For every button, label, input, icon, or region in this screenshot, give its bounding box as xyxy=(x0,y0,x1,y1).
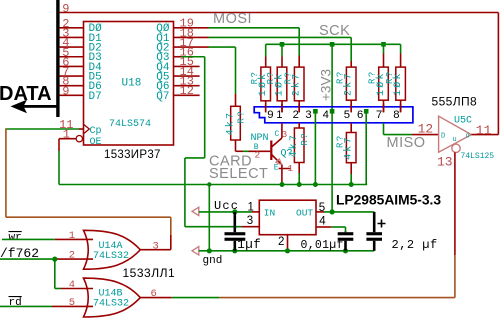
svg-text:6: 6 xyxy=(357,109,363,121)
connector pin label 1 xyxy=(276,109,282,121)
regulator pin 5 label xyxy=(319,202,325,214)
net Q2 to NPN base resistor xyxy=(209,47,236,106)
svg-text:R?: R? xyxy=(283,71,293,85)
connector pin label 9 xyxy=(267,109,273,121)
bus arrow (left-pointing) xyxy=(11,100,58,114)
svg-text:3: 3 xyxy=(247,215,253,227)
junction gnd at rail drop xyxy=(207,248,212,253)
connector pin label 7 xyxy=(376,109,382,121)
regulator pin 2 label xyxy=(278,236,284,248)
svg-text:rd: rd xyxy=(9,297,22,309)
transistor pin name B and number 2 xyxy=(254,143,261,161)
buffer input pin 12 label xyxy=(418,122,434,137)
U18 OE pin name xyxy=(90,137,102,148)
svg-text:1533ЛЛ1: 1533ЛЛ1 xyxy=(123,266,176,280)
net label /f762 xyxy=(0,246,39,261)
svg-text:1µf: 1µf xyxy=(237,238,261,252)
junction /f762 node xyxy=(52,257,57,262)
connector pin 1 pad stub xyxy=(281,104,283,112)
capacitor C? 0,01uf xyxy=(338,232,354,251)
svg-text:2,2 µf: 2,2 µf xyxy=(392,238,438,252)
buffer U5C 74LS125 triangle xyxy=(439,116,472,152)
wire Ucc to regulator IN pin 1 xyxy=(199,211,259,213)
svg-text:1: 1 xyxy=(63,128,70,142)
U18 output pin 12 stub (n.c.) xyxy=(174,84,200,98)
svg-text:9: 9 xyxy=(267,109,273,121)
svg-text:12: 12 xyxy=(418,122,434,137)
label 74LS32 (U14A) xyxy=(93,251,129,262)
U18 output pin name Q5 xyxy=(156,71,169,83)
resistor R? 10k (card pin 8 pull-up) xyxy=(385,44,406,112)
svg-text:3: 3 xyxy=(153,240,159,252)
junction divider R bottom (pin5) at rail xyxy=(349,182,354,187)
U18 pin name D5 xyxy=(89,71,102,83)
wire /f762 branch to U14B pin 4 xyxy=(55,259,93,291)
svg-text:SCK: SCK xyxy=(319,23,350,39)
resistor R? 4k7 (card pin 2 divider to GND) xyxy=(288,123,310,185)
transistor pin name C and number 3 xyxy=(275,129,288,140)
transistor pin name E and number 1 xyxy=(274,163,294,174)
svg-text:U18: U18 xyxy=(122,77,142,89)
svg-text:gnd: gnd xyxy=(203,255,223,267)
junction card pin 3 (GND) xyxy=(313,109,318,114)
junction card pin 6 (GND) xyxy=(364,109,369,114)
wire gnd net xyxy=(199,250,374,252)
junction gnd at 0,01uf xyxy=(343,248,348,253)
U18 output pin 19 wire (Q0) xyxy=(174,17,209,31)
regulator pin 1 label xyxy=(248,202,254,214)
U18 output pin name Q1 xyxy=(156,33,170,45)
net label +3V3 (rotated) xyxy=(319,69,334,101)
wire card pin 6 to ground rail xyxy=(365,111,367,184)
U18 output pin 14 stub (n.c.) xyxy=(174,65,200,79)
U18 input pin 7 (D5) wire xyxy=(59,65,83,79)
connector pin 8 pad stub xyxy=(400,104,402,112)
connector pin label 2 xyxy=(293,109,299,121)
wire rail drop to gnd port net xyxy=(208,185,210,252)
svg-text:OUT: OUT xyxy=(296,208,313,219)
bus DATA (thick black vertical) xyxy=(56,0,59,117)
U18 output pin name Q4 xyxy=(156,62,170,74)
label U14A xyxy=(99,241,123,252)
svg-text:7: 7 xyxy=(376,109,382,121)
junction on rail at +3V3 drop xyxy=(330,42,335,47)
resistor R? 4k7 (base resistor from Q2) xyxy=(225,106,247,151)
wire U14A output pin 3 to U18 Cp (feedback loop) xyxy=(6,128,171,252)
IC U18 74LS574 body xyxy=(84,22,174,146)
label 74LS125 xyxy=(461,152,495,161)
IC regulator LP2985AIM5-3.3 body xyxy=(259,200,316,235)
svg-text:R?: R? xyxy=(237,110,247,124)
svg-text:2: 2 xyxy=(293,109,299,121)
svg-text:R?: R? xyxy=(368,70,378,84)
junction NPN emitter at rail xyxy=(280,182,285,187)
junction card pin 4 (+3V3) xyxy=(330,109,335,114)
svg-text:R?: R? xyxy=(266,71,276,85)
svg-text:1: 1 xyxy=(69,230,75,242)
U18 input pin 2 (D0) wire xyxy=(59,17,83,31)
svg-text:13: 13 xyxy=(437,155,453,170)
junction gnd at regulator pin 2 xyxy=(285,248,290,253)
U18 pin name D4 xyxy=(89,62,103,74)
U18 output pin 15 stub (n.c.) xyxy=(174,55,200,69)
pin number 9 (bus entry, top) xyxy=(62,2,69,16)
connector pin 5 pad stub xyxy=(350,104,352,112)
U18 pin name D6 xyxy=(89,81,102,93)
value label 1uf xyxy=(237,238,261,252)
connector pin 9 pad stub xyxy=(265,104,267,112)
svg-text:D7: D7 xyxy=(89,91,102,103)
U18 output pin name Q0 xyxy=(156,23,170,35)
wire regulator OUT pin 5 to +3V3 junction xyxy=(316,211,374,213)
svg-text:4: 4 xyxy=(323,109,329,121)
svg-text:1: 1 xyxy=(288,163,294,174)
svg-text:555ЛП8: 555ЛП8 xyxy=(432,95,478,109)
svg-text:6: 6 xyxy=(151,288,157,300)
svg-text:2: 2 xyxy=(69,250,75,262)
svg-text:Cp: Cp xyxy=(90,126,102,137)
wire base resistor to NPN base xyxy=(236,150,271,152)
wire buffer enable to RD gate output xyxy=(219,152,455,297)
net Q3 to regulator ON/OFF pin 3 xyxy=(181,57,259,227)
wire /f762 to U14A pin 2 xyxy=(0,250,93,262)
svg-text:IN: IN xyxy=(264,208,275,219)
U18 output pin 16 wire (Q3) xyxy=(174,46,194,60)
net SCK (Q1 to card pin 5 series resistor) xyxy=(209,37,352,61)
wire wr to U14A pin 1 xyxy=(2,230,93,242)
U18 pin name D0 xyxy=(89,23,103,35)
svg-text:E: E xyxy=(274,164,279,173)
svg-text:8: 8 xyxy=(393,109,399,121)
svg-text:74LS32: 74LS32 xyxy=(93,251,129,262)
transistor Q? NPN (card select) xyxy=(270,123,290,185)
svg-text:2: 2 xyxy=(255,150,261,161)
svg-text:LP2985AIM5-3.3: LP2985AIM5-3.3 xyxy=(336,193,441,208)
svg-text:MISO: MISO xyxy=(387,135,426,151)
svg-text:C: C xyxy=(275,130,280,139)
svg-text:R?: R? xyxy=(335,134,345,148)
regulator pin 4 label xyxy=(319,216,326,228)
connector pin label 5 xyxy=(344,109,350,121)
resistor R? 2k7 (SCK series) xyxy=(335,61,356,112)
net MOSI (Q0 to card pin 2 series resistor) xyxy=(209,28,300,56)
label U18 xyxy=(122,77,142,89)
label 1533ЛЛ1 xyxy=(123,266,176,280)
junction card pin3 wire at rail xyxy=(313,182,318,187)
label DATA xyxy=(0,83,52,105)
svg-text:MOSI: MOSI xyxy=(213,11,252,27)
label 555ЛП8 xyxy=(432,95,478,109)
label U5C xyxy=(454,116,472,127)
label NPN xyxy=(251,133,269,144)
wire +3V3 vertical (rail to card pin 4 to regulator OUT) xyxy=(331,44,333,212)
junction on rail at R pin7 resistor xyxy=(381,42,386,47)
U18 output pin name Q2 xyxy=(156,43,169,55)
svg-text:OE: OE xyxy=(90,137,102,148)
junction Ucc at 1uf capacitor xyxy=(232,209,237,214)
svg-text:U5C: U5C xyxy=(454,116,472,127)
connector pin label 6 xyxy=(357,109,363,121)
svg-text:11: 11 xyxy=(476,123,492,138)
connector pin label 3 xyxy=(305,109,311,121)
connector X? card socket (blue outline) xyxy=(254,107,413,123)
value label 2,2uf xyxy=(392,238,438,252)
label U14B xyxy=(99,289,123,300)
U18 pin name D7 xyxy=(89,91,102,103)
junction gnd at 1uf xyxy=(232,248,237,253)
wire net-D9 from bus to buffer U5C output pin 11 xyxy=(59,13,498,135)
net label SCK xyxy=(319,23,350,39)
U18 pin name D2 xyxy=(89,43,102,55)
svg-text:12: 12 xyxy=(180,84,194,98)
svg-text:9: 9 xyxy=(62,84,69,98)
svg-text:0,01µf: 0,01µf xyxy=(301,239,344,252)
wire card pin 3 to ground rail xyxy=(314,111,316,184)
svg-text:R?: R? xyxy=(335,70,345,84)
wire ground rail (OE, emitter, dividers, card pins 3+6) xyxy=(59,139,367,185)
U18 input pin 3 (D1) wire xyxy=(59,26,83,40)
OR gate U14B 74LS32 body xyxy=(84,278,141,317)
resistor R? 4k7 (card pin 5 divider to GND) xyxy=(335,123,356,185)
U18 input pin 8 (D6) wire xyxy=(59,75,83,89)
svg-text:3: 3 xyxy=(305,109,311,121)
svg-text:74LS574: 74LS574 xyxy=(109,119,151,130)
connector pin label 8 xyxy=(393,109,399,121)
svg-text:4k7: 4k7 xyxy=(225,111,237,136)
svg-text:1533ИР37: 1533ИР37 xyxy=(104,149,161,161)
port gnd (ground arrow) xyxy=(192,247,199,255)
junction on rail at R pin1 resistor xyxy=(280,42,285,47)
svg-text:4k7: 4k7 xyxy=(288,133,300,158)
net label CARD SELECT xyxy=(209,153,268,182)
port Ucc (power input arrow) xyxy=(192,207,199,215)
U18 input pin 5 (D3) wire xyxy=(59,46,83,60)
buffer enable pin 13 bubble xyxy=(452,144,460,152)
U18 output pin name Q7 xyxy=(156,91,169,103)
svg-text:R?: R? xyxy=(300,132,310,146)
svg-text:R?: R? xyxy=(385,70,395,84)
svg-text:9: 9 xyxy=(62,2,69,16)
net label rd (overlined) xyxy=(9,297,22,309)
resistor R? 10k (MISO pull-up, card pin 7) xyxy=(368,44,389,112)
regulator pin name IN xyxy=(264,208,275,219)
value label 0,01uf xyxy=(301,239,344,252)
resistor R? 2k7 (MOSI series) xyxy=(283,56,304,113)
junction +3V3 at regulator OUT xyxy=(330,209,335,214)
U18 output pin 18 wire (Q1) xyxy=(174,26,209,40)
wire U14B output pin 6 to buffer enable xyxy=(140,288,219,300)
net MISO (card pin 7 to buffer input) xyxy=(384,123,439,135)
wire regulator GND pin 2 to gnd rail xyxy=(287,235,289,251)
svg-text:R?: R? xyxy=(250,71,260,85)
label LP2985AIM5-3.3 xyxy=(336,193,441,208)
net label MOSI xyxy=(213,11,252,27)
wire regulator pin 4 to 0,01uf capacitor xyxy=(316,227,346,232)
svg-text:o: o xyxy=(466,132,470,140)
U18 Cp clock triangle and name xyxy=(84,124,102,137)
svg-text:D: D xyxy=(441,132,445,140)
label 1533ИР37 xyxy=(104,149,161,161)
U18 pin name D3 xyxy=(89,52,102,64)
svg-text:3: 3 xyxy=(282,129,288,140)
label gnd xyxy=(203,255,223,267)
U18 output pin name Q3 xyxy=(156,52,169,64)
label Ucc xyxy=(214,199,239,213)
net label wr (overlined) xyxy=(9,232,22,244)
U18 clock pin 11 (Cp) wire xyxy=(6,118,84,132)
junction divider R bottom (pin2) at rail xyxy=(297,182,302,187)
svg-text:SELECT: SELECT xyxy=(209,166,268,182)
U18 output pin name Q6 xyxy=(156,81,169,93)
svg-text:4: 4 xyxy=(69,279,75,291)
svg-text:74LS125: 74LS125 xyxy=(461,152,495,161)
svg-text:5: 5 xyxy=(69,297,75,309)
OR gate U14A 74LS32 body xyxy=(84,230,141,269)
U18 input pin 9 (D7) wire xyxy=(59,84,83,98)
capacitor C? 2,2uf (polarized) xyxy=(366,212,382,251)
transistor name Q? xyxy=(281,149,293,160)
resistor R? 10k (card pin 9 pull-up) xyxy=(250,44,271,112)
net label MISO xyxy=(387,135,426,151)
U18 output-enable pin 1 (OE) wire with inversion bubble xyxy=(59,128,83,142)
U18 input pin 6 (D4) wire xyxy=(59,55,83,69)
capacitor C? 1uf xyxy=(225,212,246,251)
svg-text:Q7: Q7 xyxy=(156,91,169,103)
svg-text:wr: wr xyxy=(9,232,22,244)
U18 output pin 13 stub (n.c.) xyxy=(174,75,200,89)
plus sign of 2,2uf xyxy=(378,220,386,228)
connector pin 2 pad stub xyxy=(298,104,300,112)
svg-text:2: 2 xyxy=(278,236,284,248)
U18 output pin 17 wire (Q2) xyxy=(174,36,209,50)
svg-text:u: u xyxy=(453,136,457,144)
connector pin label 4 xyxy=(323,109,329,121)
svg-text:+3V3: +3V3 xyxy=(319,69,334,101)
buffer output pin 11 wire and label xyxy=(471,123,498,138)
svg-text:4: 4 xyxy=(319,216,326,228)
buffer enable pin 13 label xyxy=(437,155,453,170)
svg-text:74LS32: 74LS32 xyxy=(93,299,129,310)
regulator pin 3 label xyxy=(247,215,253,227)
U18 input pin 4 (D2) wire xyxy=(59,36,83,50)
wire +3V3 pull-up rail xyxy=(266,43,401,45)
junction rail to lower gnd net xyxy=(207,182,211,186)
label 74LS574 xyxy=(109,119,151,130)
regulator pin name OUT xyxy=(296,208,313,219)
label 74LS32 (U14B) xyxy=(93,299,129,310)
U18 pin name D1 xyxy=(89,33,103,45)
svg-text:5: 5 xyxy=(344,109,350,121)
connector pin 7 pad stub xyxy=(383,104,385,112)
resistor R? 10k (card pin 1 pull-up) xyxy=(266,44,287,112)
wire rd to U14B pin 5 xyxy=(0,297,93,309)
